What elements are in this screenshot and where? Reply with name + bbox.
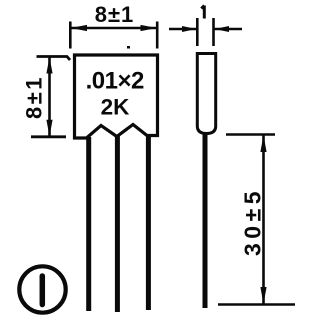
- svg-text:8±1: 8±1: [22, 75, 47, 119]
- length dimension extension tick top: [226, 133, 275, 136]
- svg-text:30±5: 30±5: [240, 187, 266, 256]
- length dimension arrowhead bottom: [260, 287, 266, 304]
- thickness dimension extension line right: [212, 18, 215, 46]
- side view body: [197, 54, 215, 134]
- thickness dimension arrow left: [169, 28, 196, 31]
- top dimension extension line left: [69, 22, 72, 49]
- top dimension line: [70, 27, 157, 29]
- length dimension line: [262, 135, 265, 305]
- lead 2: [115, 136, 120, 312]
- top dimension arrowhead left: [71, 25, 88, 31]
- svg-text:2K: 2K: [101, 95, 131, 120]
- front view body: [75, 55, 158, 138]
- lead 1: [86, 137, 91, 311]
- speck above body: [127, 46, 130, 49]
- length dimension extension tick bottom: [218, 303, 295, 306]
- length dimension arrowhead top: [260, 135, 266, 152]
- svg-text:.01×2: .01×2: [86, 68, 144, 95]
- thickness dimension extension line left: [196, 18, 199, 46]
- lead 3: [146, 134, 151, 310]
- top dimension extension line right: [156, 22, 159, 49]
- thickness dimension arrow right: [215, 28, 243, 31]
- svg-text:8±1: 8±1: [95, 2, 135, 27]
- left dimension extension tick top: [37, 57, 71, 61]
- side view lead: [203, 134, 208, 309]
- figure number circle: [19, 266, 65, 312]
- thickness dimension label 1: [201, 6, 204, 19]
- left dimension arrowhead top: [46, 57, 52, 74]
- left dimension line: [48, 57, 51, 137]
- left dimension arrowhead bottom: [46, 120, 52, 137]
- left dimension extension tick bottom: [31, 135, 66, 138]
- figure number 1 bar: [40, 276, 46, 305]
- top dimension arrowhead right: [141, 25, 158, 31]
